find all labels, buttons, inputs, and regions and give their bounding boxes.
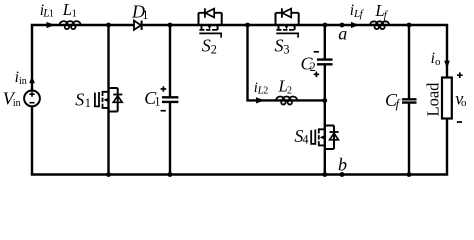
svg-text:S: S (202, 36, 211, 56)
svg-text:1: 1 (142, 8, 148, 22)
svg-text:o: o (435, 56, 441, 68)
svg-text:1: 1 (85, 96, 91, 110)
svg-text:a: a (338, 24, 347, 44)
svg-text:b: b (338, 155, 347, 175)
svg-text:L: L (62, 0, 72, 19)
svg-text:1: 1 (154, 95, 160, 109)
svg-text:2: 2 (211, 43, 217, 57)
svg-text:in: in (19, 76, 27, 87)
svg-text:Load: Load (423, 82, 442, 117)
svg-text:1: 1 (49, 9, 54, 20)
svg-text:2: 2 (263, 86, 268, 97)
svg-text:S: S (75, 90, 84, 110)
svg-text:o: o (461, 97, 467, 109)
svg-text:1: 1 (72, 8, 77, 19)
svg-text:2: 2 (287, 86, 292, 97)
svg-text:2: 2 (310, 60, 316, 74)
svg-text:4: 4 (302, 133, 308, 147)
svg-text:in: in (13, 98, 21, 109)
svg-text:S: S (275, 36, 284, 56)
svg-text:3: 3 (283, 43, 289, 57)
